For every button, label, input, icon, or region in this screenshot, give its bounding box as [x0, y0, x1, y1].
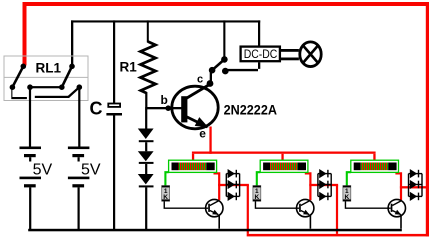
wire black top bus [71, 20, 260, 22]
wire diagonal from contact 4 [69, 87, 80, 97]
svg-text:RL1: RL1 [36, 61, 62, 76]
wire battery2 to bottom bus [78, 187, 80, 230]
wire battery1 to bottom bus [29, 187, 31, 230]
battery B1 5V [20, 147, 53, 188]
diode D3 [138, 164, 154, 188]
wire R1 top lead [147, 20, 149, 42]
wire R1 bottom lead [145, 92, 147, 109]
wire 1K to base Q2 [255, 201, 299, 209]
resistor 1K stage3 [343, 186, 351, 202]
svg-text:C: C [90, 99, 103, 119]
wire contact4 to battery2 [78, 87, 80, 146]
svg-text:DC-DC: DC-DC [244, 47, 278, 61]
wire L from contact 1 [11, 87, 27, 99]
wire red bottom bus [247, 234, 429, 237]
diode D2 [138, 142, 154, 164]
transformer T1 [169, 160, 217, 172]
wire red output drop stage2 [336, 185, 338, 234]
wire emitter Q3 to bottom bus [400, 215, 402, 229]
resistor 1K stage1 [162, 186, 170, 202]
wire emitter Q1 to bottom bus [218, 215, 220, 229]
svg-text:K: K [163, 194, 168, 201]
wire 1K to base Q3 [345, 201, 391, 209]
svg-text:c: c [197, 74, 203, 86]
wire relay pole2 up [71, 20, 73, 65]
wire DC-DC top [258, 20, 260, 45]
wire capacitor top [113, 20, 115, 103]
battery B2 5V [68, 147, 101, 188]
resistor 1K stage2 [253, 186, 261, 202]
relay contact dot 2 [27, 84, 33, 90]
wire contact2 to contact3 [30, 86, 62, 88]
wire base lead to bar [168, 107, 182, 109]
wire red output branch stage3 [400, 186, 428, 188]
wire red output drop stage1 [247, 185, 249, 234]
resistor R1 [120, 42, 156, 94]
svg-text:5V: 5V [81, 162, 101, 179]
wire red right border [426, 2, 429, 236]
wire red emitter drop [209, 127, 211, 154]
wire red feed horizontal [192, 152, 376, 154]
transformer T3 [351, 160, 399, 172]
wire 1K to base Q1 [164, 201, 209, 209]
relay switch 1 lever [12, 66, 23, 87]
wire red feed drop stage1 [192, 154, 194, 161]
transformer T2 [260, 160, 308, 172]
wire red left drop to relay [23, 2, 27, 66]
wire c to switch [210, 72, 212, 83]
wire switch top [223, 20, 225, 58]
diode block stage1 [226, 169, 241, 201]
diode block stage2 [317, 169, 332, 201]
svg-text:2N2222A: 2N2222A [224, 102, 277, 118]
wire red feed drop stage3 [373, 154, 375, 161]
transistor Q1 [206, 199, 223, 216]
svg-text:R1: R1 [120, 59, 138, 74]
relay pole 2 dot [69, 64, 75, 70]
lamp connector bars [281, 49, 299, 60]
diode block stage3 [408, 169, 423, 201]
wire green secondary stage3 [346, 171, 351, 186]
svg-text:K: K [344, 194, 349, 201]
svg-text:e: e [199, 127, 206, 141]
wire diode chain to bottom bus [145, 187, 147, 230]
transistor Q2 [297, 199, 314, 216]
switch S1 lever [212, 59, 224, 70]
wire emitter Q2 to bottom bus [310, 215, 312, 229]
wire horizontal under relay [35, 96, 70, 98]
transistor Q3 [388, 199, 405, 216]
wire red collector stage2 (transformer right to Q2) [305, 172, 312, 200]
wire black bottom bus [28, 229, 402, 232]
wire red output branch stage2 [309, 184, 338, 186]
transistor U1 2N2222A [172, 85, 218, 129]
wire switch to DC-DC [225, 62, 260, 71]
wire contact2 to battery1 [29, 87, 31, 146]
switch S1 mid dot [209, 67, 216, 74]
node c dot [207, 80, 214, 87]
capacitor C [90, 99, 123, 119]
converter DC-DC box [241, 47, 280, 62]
svg-text:5V: 5V [33, 162, 53, 179]
node b dot [165, 105, 171, 111]
switch S1 top dot [221, 56, 228, 63]
lamp X1 [300, 42, 321, 67]
wire red collector stage1 (transformer right to Q1) [214, 172, 221, 200]
relay switch 2 lever [62, 66, 72, 87]
svg-text:K: K [254, 194, 259, 201]
wire base branch [145, 107, 168, 109]
svg-text:b: b [161, 93, 168, 107]
relay RL1 box [4, 56, 88, 101]
wire green secondary stage1 [164, 171, 168, 186]
wire red collector stage3 (transformer right to Q3) [395, 172, 402, 200]
wire capacitor to bottom bus [113, 116, 115, 231]
relay pole 1 dot [21, 64, 27, 70]
diode D1 [138, 109, 154, 142]
switch S1 right dot [222, 68, 229, 75]
wire red feed drop stage2 [281, 154, 283, 161]
wire green secondary stage2 [256, 171, 260, 186]
relay contact dot 3 [59, 84, 65, 90]
relay contact dot 1 [10, 84, 16, 90]
relay contact dot 4 [77, 84, 83, 90]
wire red output branch stage1 [218, 184, 249, 186]
wire red top bus [23, 2, 430, 6]
